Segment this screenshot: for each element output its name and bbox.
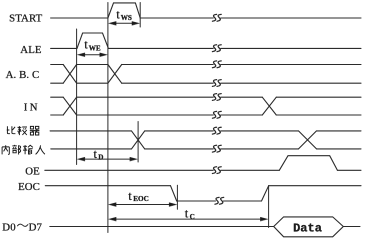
break marks IN top	[212, 94, 216, 101]
svg-text:C: C	[190, 213, 195, 221]
wire START baseline left	[51, 17, 108, 19]
dimension tick x=138.1 (t_D right end)	[137, 122, 139, 163]
bus IN crossover 2	[262, 97, 276, 115]
OE pulse trapezoid	[279, 156, 337, 171]
svg-text:Data: Data	[293, 221, 322, 235]
wire D0~D7 left	[50, 226, 274, 228]
svg-text:EOC: EOC	[18, 181, 40, 193]
dimension tick x=177.4 (t_EOC right end)	[176, 185, 178, 209]
wire 比较器 far right	[317, 130, 362, 132]
svg-text:D0: D0	[2, 221, 15, 233]
EOC rising edge	[262, 186, 269, 201]
START pulse trapezoid	[108, 3, 140, 18]
bus A.B.C left segment	[51, 65, 64, 84]
svg-text:D: D	[98, 153, 103, 161]
wire 比较器 left	[50, 130, 131, 132]
break marks IN bottom	[212, 111, 216, 118]
svg-text:t: t	[94, 147, 98, 161]
t_WE dimension arrow	[77, 53, 107, 57]
wire 内部输入 far right	[317, 148, 362, 150]
svg-text:t: t	[116, 7, 120, 21]
svg-text:D7: D7	[29, 221, 43, 233]
EOC falling edge	[171, 186, 177, 201]
bus IN left segment	[51, 97, 64, 115]
label 内部输入 (drawn glyphs)	[2, 145, 45, 155]
wire EOC high right	[269, 185, 361, 187]
wire ALE baseline left	[51, 47, 77, 49]
bus IN middle segment	[77, 97, 263, 115]
break marks ALE	[212, 45, 216, 52]
t_EOC dimension arrow	[109, 203, 177, 207]
break marks A.B.C top	[212, 61, 216, 68]
wire START baseline right	[140, 17, 361, 19]
dimension line x=140.2	[139, 3, 141, 28]
bus IN crossover 1	[63, 97, 76, 115]
wire 内部输入 middle/right	[145, 148, 299, 150]
wire ALE baseline right	[108, 47, 361, 49]
break marks 比较器	[212, 127, 216, 134]
wire 内部输入 left	[51, 148, 132, 150]
break marks A.B.C bottom	[212, 80, 216, 87]
wire EOC high left	[45, 185, 170, 187]
svg-text:START: START	[9, 12, 42, 24]
svg-text:IN: IN	[24, 102, 40, 114]
crossover 比较器/内部输入 1	[132, 131, 145, 149]
svg-text:t: t	[84, 38, 88, 52]
break marks EOC	[215, 197, 219, 204]
wire OE baseline right	[337, 169, 361, 171]
svg-text:WS: WS	[121, 14, 132, 22]
svg-text:ALE: ALE	[20, 44, 42, 56]
dimension line x=107.9	[107, 3, 109, 233]
crossover 比较器/内部输入 2	[299, 131, 317, 149]
break marks START	[212, 14, 216, 21]
label 比较器 (drawn glyphs)	[7, 126, 40, 135]
bus IN right segment	[276, 97, 361, 115]
break marks 内部输入	[212, 145, 216, 152]
Data hexagon	[274, 217, 344, 237]
bus A.B.C crossover 2	[108, 65, 122, 84]
dimension line x=76.6	[76, 29, 78, 165]
bus A.B.C middle segment	[77, 65, 108, 84]
t_WS dimension arrow	[109, 21, 140, 25]
bus A.B.C right segment	[122, 65, 361, 84]
t_D dimension arrow	[77, 157, 137, 161]
wire D0~D7 right	[343, 226, 360, 228]
svg-text:t: t	[128, 189, 132, 203]
svg-text:OE: OE	[25, 165, 40, 177]
wire 比较器 middle/right	[145, 130, 299, 132]
t_C dimension arrow	[109, 217, 268, 221]
svg-text:WE: WE	[89, 44, 101, 52]
ALE pulse trapezoid	[77, 33, 108, 48]
wire OE baseline left	[45, 169, 279, 171]
svg-text:A. B. C: A. B. C	[6, 69, 40, 81]
dimension line x=268.6 (t_C right end)	[268, 186, 270, 228]
wire EOC low	[177, 200, 262, 202]
svg-text:t: t	[185, 207, 189, 221]
break marks OE	[212, 167, 216, 174]
svg-text:EOC: EOC	[133, 195, 149, 203]
bus A.B.C crossover 1	[63, 65, 76, 84]
